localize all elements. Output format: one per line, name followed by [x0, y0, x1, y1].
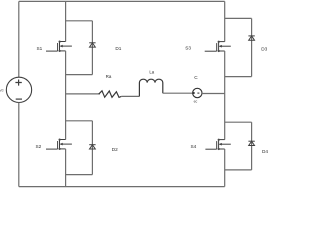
junction: mid rail / Ra left terminal — [98, 93, 100, 95]
diode D4 — [248, 141, 254, 145]
transistor S4 (N-MOSFET) — [205, 139, 230, 151]
svg-text:S4: S4 — [191, 144, 197, 149]
svg-text:Ra: Ra — [106, 74, 112, 79]
wire: left leg riser / S1 drain — [65, 1, 67, 41]
wire: S1 cell bottom (to D1) — [66, 74, 93, 76]
wire: left rail lower segment — [18, 102, 20, 186]
wire: S3 cell top (to D3) — [225, 17, 252, 19]
wire: S4 source to bottom rail — [224, 149, 226, 187]
wire: left rail upper segment — [18, 1, 20, 77]
wire: right leg riser / S3 drain — [224, 1, 226, 41]
diode D3 — [248, 36, 254, 40]
wire: mid rail left (to Ra) — [66, 93, 99, 95]
svg-text:ec: ec — [194, 100, 198, 104]
transistor S2 (N-MOSFET) — [46, 139, 72, 150]
wire: S4 cell bottom (to D4) — [225, 169, 252, 171]
diode D1 — [89, 43, 95, 47]
wire: D3 branch vertical — [251, 18, 253, 76]
wire: D1 branch vertical — [91, 21, 93, 75]
wire: S2 source to bottom rail — [65, 149, 67, 187]
wire: right mid vertical (S3 source to S4 drain) — [224, 51, 226, 140]
resistor Ra — [99, 91, 121, 98]
svg-text:S3: S3 — [185, 46, 191, 51]
svg-text:S2: S2 — [36, 144, 42, 149]
wire: bottom rail — [19, 186, 225, 188]
wire: S3 cell bottom (to D3) — [225, 76, 252, 78]
diode D2 — [89, 145, 95, 149]
wire: left mid vertical (S1 source to S2 drain) — [65, 51, 67, 140]
inductor La — [139, 79, 162, 96]
transistor S1 (N-MOSFET) — [46, 41, 72, 53]
voltage source Vd (DC source circle) — [6, 77, 31, 102]
wire: S2 cell top (to D2) — [66, 120, 93, 122]
wire: La to source E — [163, 92, 194, 94]
wire: E to right leg — [202, 93, 225, 95]
source E (back-EMF circle) — [193, 88, 202, 97]
svg-text:Vd: Vd — [0, 88, 3, 92]
transistor S3 (N-MOSFET) — [205, 41, 231, 53]
wire: top rail — [19, 0, 225, 2]
svg-text:D3: D3 — [261, 47, 267, 52]
wire: S1 cell top (to D1) — [66, 20, 93, 22]
svg-text:La: La — [149, 70, 154, 75]
svg-text:D1: D1 — [115, 46, 121, 51]
wire: Ra to La — [121, 95, 139, 97]
wire: D4 branch vertical — [251, 122, 253, 170]
wire: S4 cell top (to D4) — [225, 121, 252, 123]
wire: S2 cell bottom (to D2) — [66, 174, 93, 176]
wire: D2 branch vertical — [91, 121, 93, 175]
svg-text:C: C — [194, 75, 198, 80]
svg-text:D2: D2 — [112, 147, 118, 152]
svg-text:S1: S1 — [37, 46, 43, 51]
svg-text:D4: D4 — [262, 149, 268, 154]
